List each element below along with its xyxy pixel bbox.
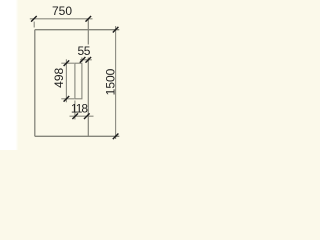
498 top tick (64, 60, 70, 66)
118 left extension line (cutout left edge extended) (74, 101, 76, 120)
svg-text:498: 498 (52, 67, 66, 87)
498 bottom extension line (61, 98, 74, 100)
door panel top edge with extension to 1500 dim (35, 29, 120, 31)
118 left tick (72, 113, 78, 119)
750 left extension line (33, 22, 35, 28)
750 right tick (86, 16, 92, 22)
118 right tick (84, 113, 90, 119)
paper left white margin (0, 0, 19, 150)
svg-text:55: 55 (78, 44, 91, 58)
498 dimension line (65, 59, 67, 102)
55 cutout right extension stub (81, 58, 83, 63)
498 top extension line (61, 62, 74, 64)
750 dimension line (30, 18, 93, 20)
498 bottom tick (64, 96, 70, 102)
1500 dimension line (115, 26, 117, 139)
118 dimension line (70, 115, 94, 117)
55 left tick (80, 57, 86, 63)
door panel right edge / extension line (87, 20, 89, 137)
750 left tick (31, 16, 37, 22)
svg-text:1500: 1500 (104, 68, 118, 95)
lock cutout rectangle (75, 63, 82, 99)
55 right tick (86, 57, 92, 63)
door panel bottom edge with extension to 1500 dim (35, 135, 120, 137)
svg-text:750: 750 (52, 4, 72, 18)
svg-text:118: 118 (71, 101, 88, 115)
1500 bottom tick (113, 134, 119, 140)
55 dimension line (80, 59, 92, 61)
1500 top tick (113, 27, 119, 33)
door panel outline left edge (34, 30, 36, 137)
